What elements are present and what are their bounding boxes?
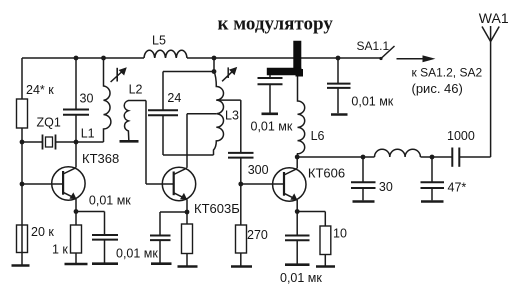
svg-text:L3: L3 — [225, 109, 239, 123]
svg-text:L2: L2 — [129, 83, 143, 97]
svg-text:0,01 мк: 0,01 мк — [251, 120, 293, 134]
svg-text:1000: 1000 — [447, 129, 475, 143]
svg-text:WA1: WA1 — [479, 10, 509, 26]
svg-text:КТ368: КТ368 — [82, 151, 119, 166]
svg-text:24: 24 — [167, 91, 181, 105]
svg-text:L6: L6 — [311, 129, 325, 143]
svg-text:КТ606: КТ606 — [308, 166, 345, 181]
svg-text:L5: L5 — [152, 34, 166, 48]
svg-text:47*: 47* — [448, 181, 467, 195]
svg-text:1 к: 1 к — [52, 243, 68, 257]
svg-text:24* к: 24* к — [26, 83, 54, 97]
svg-text:(рис. 46): (рис. 46) — [412, 81, 463, 96]
svg-text:к модулятору: к модулятору — [218, 14, 334, 35]
svg-text:0,01 мк: 0,01 мк — [280, 271, 322, 285]
svg-text:300: 300 — [248, 163, 269, 177]
svg-text:30: 30 — [379, 180, 393, 194]
svg-text:0,01 мк: 0,01 мк — [89, 194, 131, 208]
svg-text:ZQ1: ZQ1 — [37, 116, 61, 130]
svg-text:0,01 мк: 0,01 мк — [351, 95, 393, 109]
svg-text:КТ603Б: КТ603Б — [194, 201, 240, 216]
svg-text:L1: L1 — [81, 127, 95, 141]
svg-text:30: 30 — [80, 92, 94, 106]
svg-text:0,01 мк: 0,01 мк — [116, 247, 158, 261]
svg-text:20 к: 20 к — [31, 225, 54, 239]
svg-text:SA1.1: SA1.1 — [357, 39, 390, 53]
svg-text:к SA1.2, SA2: к SA1.2, SA2 — [412, 66, 483, 80]
svg-text:10: 10 — [333, 227, 347, 241]
svg-text:270: 270 — [247, 228, 268, 242]
